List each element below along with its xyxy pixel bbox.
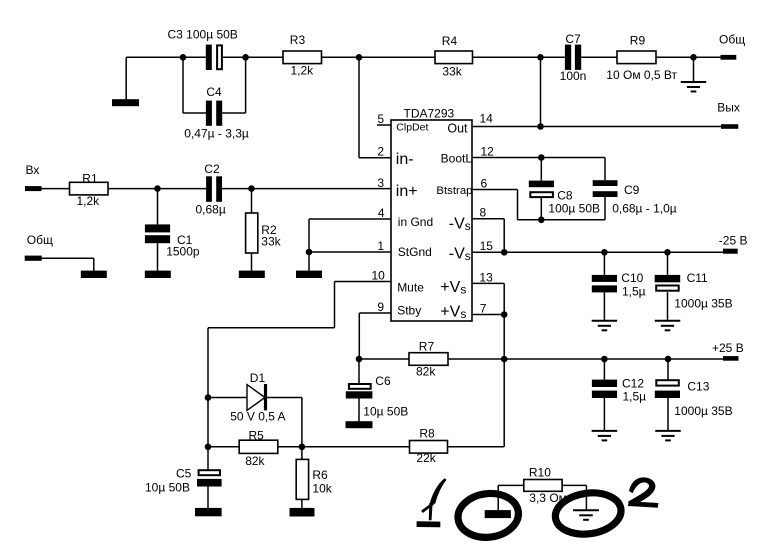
wire bbox=[359, 358, 409, 360]
svg-text:50 V 0,5 A: 50 V 0,5 A bbox=[230, 410, 285, 424]
wire bbox=[667, 252, 669, 275]
svg-text:9: 9 bbox=[377, 300, 384, 314]
svg-text:10k: 10k bbox=[312, 482, 332, 496]
ground bar (C5) bbox=[195, 508, 222, 516]
wire bbox=[603, 398, 605, 431]
svg-text:C12: C12 bbox=[622, 377, 644, 391]
node D (C7 left junction) bbox=[537, 54, 544, 61]
wire bbox=[245, 57, 247, 113]
wire bbox=[208, 446, 239, 448]
svg-text:Mute: Mute bbox=[397, 280, 424, 294]
svg-text:12: 12 bbox=[481, 144, 495, 158]
svg-text:Btstrap: Btstrap bbox=[436, 185, 472, 197]
ground (R9 output) bbox=[681, 82, 707, 92]
svg-text:22k: 22k bbox=[416, 451, 436, 465]
wire bbox=[93, 258, 95, 270]
resistor R10 bbox=[524, 480, 562, 492]
svg-text:15: 15 bbox=[480, 239, 494, 253]
wire bbox=[222, 56, 245, 58]
node B (C3 right junction) bbox=[242, 54, 249, 61]
wire bbox=[126, 56, 183, 58]
svg-text:in Gnd: in Gnd bbox=[398, 215, 433, 229]
wire bbox=[358, 313, 360, 359]
svg-text:7: 7 bbox=[480, 301, 487, 315]
junction (pin1/pin4 ground) bbox=[306, 249, 313, 256]
wire bbox=[448, 446, 505, 448]
capacitor C6 bbox=[349, 384, 371, 389]
wire bbox=[108, 188, 158, 190]
svg-text:-25 В: -25 В bbox=[719, 233, 748, 247]
wire bbox=[182, 57, 184, 113]
capacitor C1 bbox=[145, 224, 170, 232]
node H (D1 anode junction) bbox=[205, 394, 212, 401]
resistor R7 bbox=[409, 353, 448, 366]
ground (C12) bbox=[592, 431, 618, 441]
svg-text:1: 1 bbox=[377, 239, 384, 253]
svg-text:R4: R4 bbox=[442, 34, 458, 48]
wire bbox=[183, 112, 206, 114]
wire bbox=[301, 398, 303, 447]
resistor R2 bbox=[246, 213, 258, 253]
resistor R3 bbox=[283, 51, 322, 64]
ground (C11) bbox=[655, 321, 681, 331]
node G (C2/R2 junction) bbox=[248, 185, 255, 192]
svg-text:Общ: Общ bbox=[719, 33, 745, 47]
svg-text:+25 В: +25 В bbox=[712, 341, 744, 355]
svg-text:C10: C10 bbox=[621, 271, 643, 285]
svg-text:Out: Out bbox=[447, 122, 468, 136]
svg-text:82k: 82k bbox=[416, 365, 436, 379]
wire bbox=[359, 56, 435, 58]
svg-text:C8: C8 bbox=[557, 189, 573, 203]
watermark digit 1 bbox=[430, 478, 447, 504]
ground bar (C1) bbox=[145, 271, 171, 278]
node J (R5/R6/R8 junction) bbox=[299, 444, 306, 451]
svg-text:4: 4 bbox=[378, 206, 385, 220]
wire bbox=[278, 446, 302, 448]
wire bbox=[540, 57, 542, 126]
wire bbox=[251, 253, 253, 271]
junction (C8 bottom) bbox=[538, 217, 545, 224]
wire bbox=[322, 56, 360, 58]
capacitor C7 bbox=[565, 45, 571, 70]
junction (pin 7/13) bbox=[501, 311, 508, 318]
svg-text:1,2k: 1,2k bbox=[291, 64, 315, 78]
terminal Общ (top right) bbox=[721, 55, 737, 60]
wire bbox=[585, 485, 587, 510]
wire bbox=[562, 484, 586, 486]
pin 1 wire (StGnd) bbox=[309, 251, 391, 253]
node E (R9 right junction) bbox=[690, 54, 697, 61]
svg-text:in-: in- bbox=[396, 151, 414, 168]
pin 13 wire (+Vs) bbox=[472, 282, 504, 284]
wire bbox=[473, 56, 541, 58]
wire (to pin 3 in+) bbox=[252, 188, 392, 190]
junction (R7/C6/Stby) bbox=[356, 356, 363, 363]
junction (C12 top) bbox=[601, 356, 608, 363]
svg-text:33k: 33k bbox=[261, 234, 281, 248]
svg-text:C2: C2 bbox=[204, 162, 220, 176]
capacitor C3 bbox=[206, 45, 212, 70]
capacitor C8 bbox=[529, 181, 554, 188]
pin 14 wire (Out net) bbox=[472, 126, 721, 128]
wire bbox=[503, 315, 505, 360]
svg-text:D1: D1 bbox=[250, 371, 266, 385]
wire bbox=[301, 499, 303, 508]
svg-text:C5: C5 bbox=[176, 467, 192, 481]
wire bbox=[693, 57, 695, 82]
junction (C11 top) bbox=[664, 249, 671, 256]
watermark letter O (second) bbox=[553, 489, 624, 538]
wire bbox=[308, 219, 310, 252]
pin 2 wire (in-) bbox=[359, 157, 391, 159]
svg-text:0,68µ: 0,68µ bbox=[196, 203, 226, 217]
svg-text:5: 5 bbox=[377, 112, 384, 126]
terminal Вх bbox=[25, 186, 42, 191]
svg-text:R3: R3 bbox=[290, 33, 306, 47]
wire bbox=[517, 190, 519, 220]
svg-text:10: 10 bbox=[371, 269, 385, 283]
wire bbox=[246, 56, 283, 58]
wire bbox=[603, 292, 605, 320]
wire bbox=[667, 292, 669, 321]
wire bbox=[540, 197, 542, 219]
diode D1 bbox=[247, 385, 265, 411]
capacitor C5 bbox=[199, 470, 220, 475]
ground bar (StGnd) bbox=[296, 271, 322, 278]
svg-text:-Vs: -Vs bbox=[449, 245, 471, 263]
wire bbox=[540, 158, 542, 181]
wire bbox=[358, 399, 360, 422]
svg-text:TDA7293: TDA7293 bbox=[404, 107, 455, 121]
svg-text:13: 13 bbox=[479, 270, 493, 284]
wire bbox=[604, 158, 606, 181]
wire bbox=[157, 243, 159, 270]
svg-text:1000µ 35В: 1000µ 35В bbox=[674, 296, 732, 310]
svg-text:R7: R7 bbox=[419, 340, 435, 354]
wire bbox=[656, 56, 721, 58]
junction (C13 top) bbox=[665, 356, 672, 363]
terminal -25 В bbox=[723, 249, 738, 254]
ground (C10) bbox=[592, 321, 618, 331]
pin 9 wire (Stby) bbox=[359, 312, 391, 314]
svg-text:in+: in+ bbox=[396, 183, 418, 200]
capacitor C10 bbox=[592, 275, 617, 282]
wire bbox=[604, 197, 606, 220]
svg-text:+Vs: +Vs bbox=[440, 304, 466, 322]
wire bbox=[157, 189, 159, 225]
ground bar (C6) bbox=[346, 421, 373, 428]
svg-text:C6: C6 bbox=[375, 374, 391, 388]
ground (R10) bbox=[573, 510, 599, 520]
terminal Общ (input) bbox=[25, 256, 42, 261]
watermark digit 2 bbox=[630, 478, 655, 505]
junction (C8 top) bbox=[538, 154, 545, 161]
svg-text:R5: R5 bbox=[249, 428, 265, 442]
node A (C3 left junction) bbox=[180, 54, 187, 61]
svg-text:6: 6 bbox=[481, 176, 488, 190]
wire bbox=[207, 328, 209, 398]
svg-text:Общ: Общ bbox=[27, 233, 53, 247]
wire bbox=[301, 447, 303, 460]
svg-text:82k: 82k bbox=[245, 454, 265, 468]
capacitor C2 bbox=[206, 176, 212, 202]
wire bbox=[207, 447, 209, 470]
wire bbox=[158, 188, 207, 190]
wire bbox=[581, 56, 617, 58]
node I (R5 left junction) bbox=[205, 444, 212, 451]
wire bbox=[222, 112, 245, 114]
wire bbox=[183, 56, 206, 58]
capacitor C13 bbox=[656, 380, 679, 385]
pin 6 wire (Btstrap) bbox=[472, 189, 518, 191]
svg-text:BootL: BootL bbox=[441, 152, 473, 166]
svg-text:100n: 100n bbox=[560, 69, 587, 83]
svg-text:1,5µ: 1,5µ bbox=[622, 284, 646, 298]
svg-text:Вх: Вх bbox=[26, 163, 40, 177]
ground bar (input Общ) bbox=[81, 271, 107, 278]
svg-text:1500p: 1500p bbox=[166, 245, 200, 259]
svg-text:Stby: Stby bbox=[397, 304, 421, 318]
svg-text:10 Ом 0,5 Вт: 10 Ом 0,5 Вт bbox=[606, 68, 677, 82]
wire bbox=[518, 219, 606, 221]
resistor R8 bbox=[410, 441, 448, 454]
wire bbox=[208, 327, 335, 329]
svg-text:R10: R10 bbox=[529, 466, 551, 480]
wire bbox=[667, 398, 669, 431]
svg-text:8: 8 bbox=[480, 206, 487, 220]
svg-text:C11: C11 bbox=[687, 271, 708, 285]
svg-text:0,47µ - 3,3µ: 0,47µ - 3,3µ bbox=[184, 127, 249, 141]
svg-text:C9: C9 bbox=[624, 183, 640, 197]
wire bbox=[667, 359, 669, 380]
pin 5 stub (ClpDet) bbox=[377, 124, 391, 126]
ground bar (R2) bbox=[239, 271, 265, 278]
svg-text:14: 14 bbox=[480, 111, 494, 125]
pin 8 wire (-Vs) bbox=[472, 218, 504, 220]
wire bbox=[125, 57, 127, 99]
junction (C10 top) bbox=[601, 249, 608, 256]
wire bbox=[503, 359, 505, 447]
+Vs rail wire bbox=[448, 358, 723, 360]
svg-text:1,5µ: 1,5µ bbox=[623, 390, 647, 404]
wire bbox=[503, 283, 505, 314]
svg-text:33k: 33k bbox=[442, 65, 462, 79]
svg-text:2: 2 bbox=[377, 145, 384, 159]
pin 12 wire (BootL) bbox=[472, 157, 605, 159]
wire bbox=[358, 57, 360, 157]
wire bbox=[208, 397, 247, 399]
wire bbox=[603, 359, 605, 380]
wire bbox=[498, 484, 524, 486]
resistor R6 bbox=[296, 459, 308, 499]
ground bar (R6) bbox=[290, 508, 315, 517]
svg-text:10µ 50В: 10µ 50В bbox=[363, 405, 408, 419]
wire bbox=[42, 188, 70, 190]
capacitor C11 bbox=[655, 275, 681, 282]
wire bbox=[603, 252, 605, 275]
svg-text:C3 100µ 50В: C3 100µ 50В bbox=[168, 28, 238, 42]
terminal Вых bbox=[721, 124, 738, 129]
wire bbox=[266, 397, 302, 399]
svg-text:1,2k: 1,2k bbox=[77, 194, 101, 208]
pin 7 wire (+Vs) bbox=[472, 314, 504, 316]
wire bbox=[222, 188, 252, 190]
svg-text:StGnd: StGnd bbox=[398, 245, 432, 259]
ground (C13) bbox=[655, 431, 681, 441]
svg-text:C13: C13 bbox=[687, 380, 709, 394]
resistor R4 bbox=[435, 51, 473, 64]
ground bar (C3 left branch) bbox=[112, 99, 139, 106]
svg-text:1000µ 35В: 1000µ 35В bbox=[674, 404, 732, 418]
svg-text:10µ 50В: 10µ 50В bbox=[145, 481, 190, 495]
junction (pin 8/15) bbox=[501, 249, 508, 256]
op-amp U1 (TDA7293 body) bbox=[391, 120, 472, 321]
terminal bar (R10 left) bbox=[485, 510, 511, 518]
wire bbox=[251, 189, 253, 213]
svg-text:+Vs: +Vs bbox=[440, 279, 466, 297]
svg-text:100µ 50В: 100µ 50В bbox=[548, 202, 600, 216]
wire bbox=[358, 359, 360, 383]
svg-text:R1: R1 bbox=[82, 172, 98, 186]
junction (Out/C7 branch) bbox=[537, 123, 544, 130]
resistor R1 bbox=[70, 182, 109, 195]
wire bbox=[541, 56, 565, 58]
svg-text:Вых: Вых bbox=[717, 101, 740, 115]
svg-text:3: 3 bbox=[377, 176, 384, 190]
svg-text:C4: C4 bbox=[206, 85, 222, 99]
node C (R3/R4 junction) bbox=[356, 54, 363, 61]
resistor R5 bbox=[239, 440, 278, 453]
wire bbox=[308, 252, 310, 271]
svg-text:R8: R8 bbox=[419, 426, 435, 440]
svg-text:R9: R9 bbox=[630, 34, 646, 48]
node F (R1/C1/C2 junction) bbox=[154, 185, 161, 192]
pin 4 wire (in Gnd) bbox=[309, 218, 391, 220]
wire bbox=[503, 219, 505, 253]
capacitor C4 bbox=[206, 101, 212, 126]
junction (+Vs/pin7 branch) bbox=[501, 356, 508, 363]
watermark letter O (first) bbox=[455, 490, 520, 541]
pin 15 wire (-Vs rail) bbox=[472, 251, 723, 253]
svg-text:0,68µ - 1,0µ: 0,68µ - 1,0µ bbox=[612, 202, 677, 216]
svg-text:C7: C7 bbox=[565, 32, 581, 46]
wire bbox=[207, 487, 209, 508]
wire bbox=[42, 257, 94, 259]
svg-text:ClpDet: ClpDet bbox=[396, 122, 428, 134]
capacitor C9 bbox=[593, 180, 618, 186]
wire (R5 to R8) bbox=[302, 446, 410, 448]
terminal +25 В bbox=[723, 356, 739, 361]
wire bbox=[334, 282, 336, 328]
wire bbox=[497, 485, 499, 510]
svg-text:R6: R6 bbox=[312, 468, 328, 482]
pin 10 wire (Mute) bbox=[335, 281, 392, 283]
resistor R9 bbox=[617, 51, 656, 64]
wire bbox=[207, 398, 209, 447]
svg-text:-Vs: -Vs bbox=[449, 216, 471, 234]
capacitor C12 bbox=[592, 380, 617, 387]
